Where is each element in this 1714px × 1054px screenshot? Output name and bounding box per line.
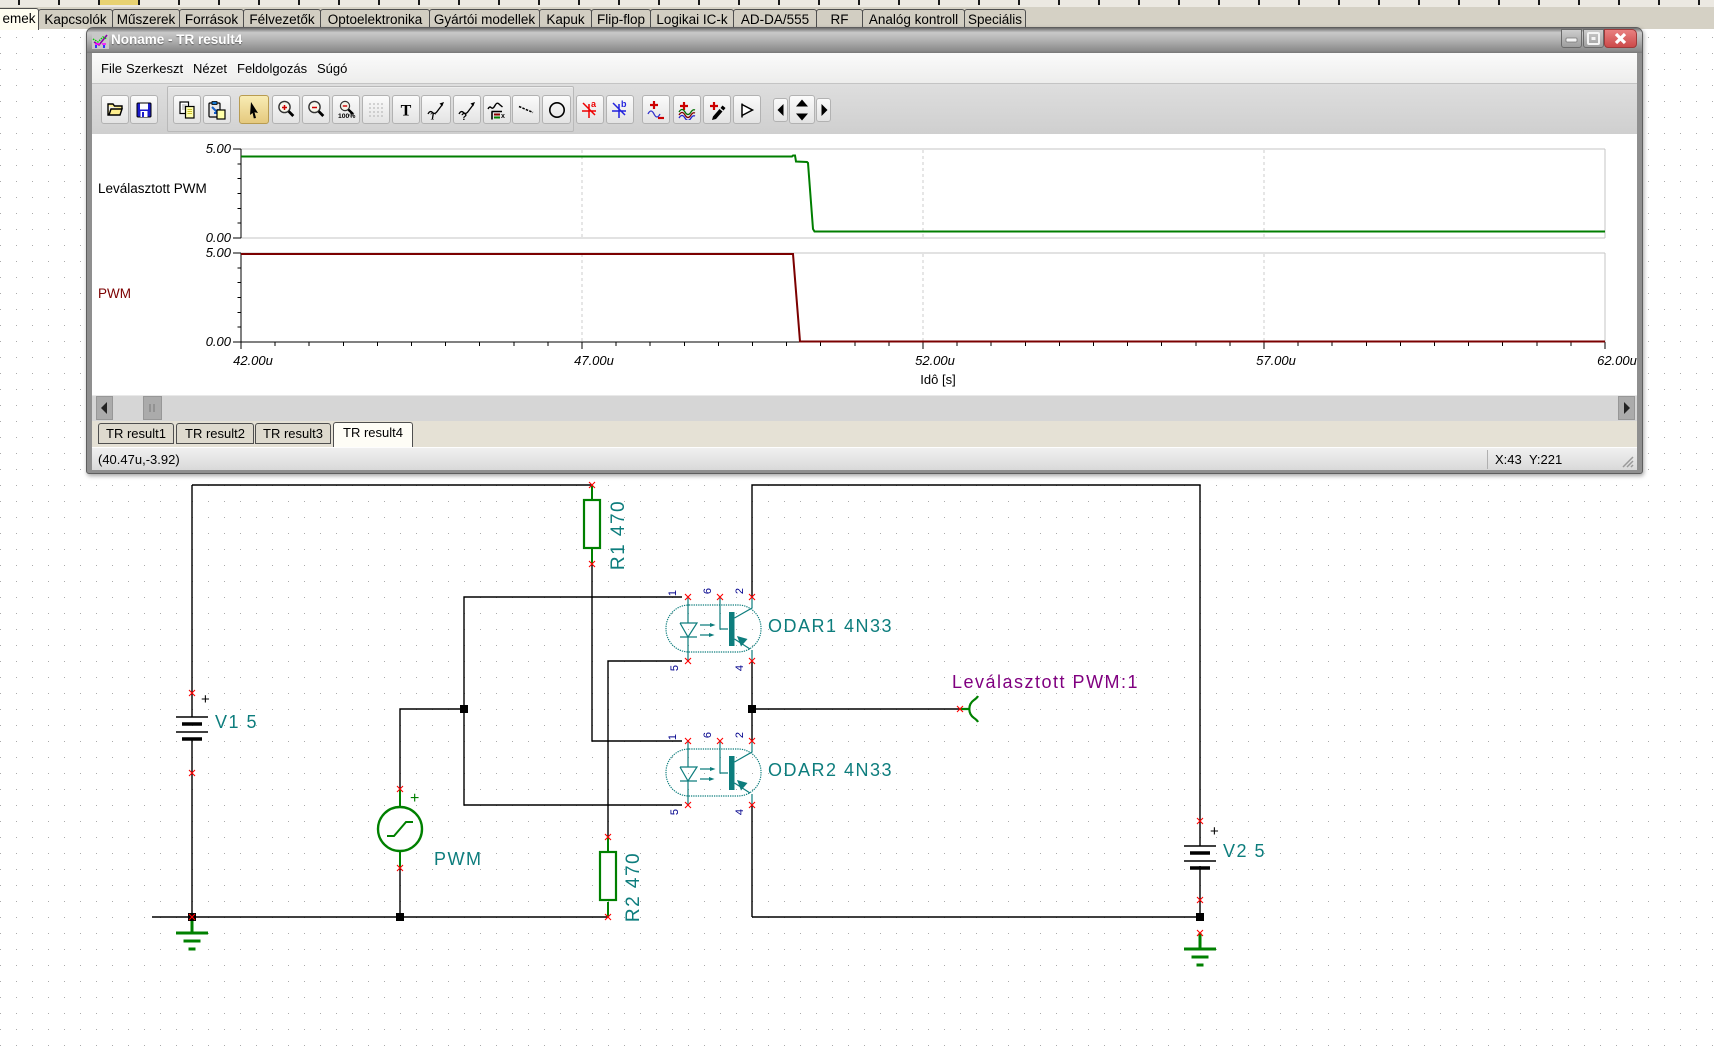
svg-text:+: +	[410, 790, 419, 807]
wire right box bottom rail	[752, 916, 1200, 918]
wire right box top	[752, 485, 1200, 917]
wire junction to PWM source	[400, 709, 464, 917]
battery V2	[1184, 846, 1216, 861]
svg-text:ODAR1 4N33: ODAR1 4N33	[768, 616, 893, 636]
wire left ground rail	[152, 916, 608, 918]
svg-text:6: 6	[702, 588, 714, 594]
svg-text:R1 470: R1 470	[608, 500, 629, 570]
svg-text:42.00u: 42.00u	[233, 353, 273, 368]
battery V1	[176, 717, 208, 732]
svg-text:100%: 100%	[338, 113, 355, 120]
svg-text:T: T	[430, 111, 436, 120]
svg-text:57.00u: 57.00u	[1256, 353, 1296, 368]
svg-text:Idô [s]: Idô [s]	[920, 372, 955, 387]
node PWM ground junction	[396, 913, 404, 921]
svg-text:b: b	[621, 99, 627, 109]
svg-text:V1 5: V1 5	[215, 712, 258, 732]
svg-text:ODAR2 4N33: ODAR2 4N33	[768, 760, 893, 780]
svg-text:52.00u: 52.00u	[915, 353, 955, 368]
svg-text:4: 4	[734, 665, 746, 671]
wire top rail V1 to R1	[192, 484, 592, 486]
svg-text:47.00u: 47.00u	[574, 353, 614, 368]
node V1 ground junction	[188, 913, 196, 921]
wire ODAR2 pin4 down	[751, 805, 753, 917]
svg-text:?: ?	[461, 112, 467, 120]
wire ODAR1 pin4 to junction to ODAR2 pin2	[751, 661, 753, 741]
svg-text:T: T	[401, 102, 412, 119]
resistor R2	[607, 837, 609, 917]
optocoupler ODAR2	[666, 749, 761, 796]
resistor R1	[591, 485, 593, 564]
svg-text:5: 5	[669, 809, 681, 815]
svg-text:5: 5	[669, 665, 681, 671]
svg-text:Leválasztott PWM:1: Leválasztott PWM:1	[952, 672, 1139, 692]
wire output to probe	[752, 708, 960, 710]
svg-text:PWM: PWM	[98, 286, 131, 301]
svg-text:a: a	[591, 99, 597, 109]
svg-text:62.00u: 62.00u	[1597, 353, 1637, 368]
optocoupler ODAR1	[666, 605, 761, 652]
svg-text:R2 470: R2 470	[623, 852, 644, 922]
svg-text:2: 2	[734, 732, 746, 738]
node PWM junction	[460, 705, 468, 713]
svg-text:4: 4	[734, 809, 746, 815]
ground for V1	[176, 917, 208, 949]
svg-text:2: 2	[734, 588, 746, 594]
svg-text:+: +	[1210, 823, 1219, 840]
svg-text:Leválasztott PWM: Leválasztott PWM	[98, 181, 207, 196]
wire R1 to ODAR2 pin1	[592, 485, 682, 741]
svg-text:0.00: 0.00	[206, 230, 232, 245]
wire PWM node vertical	[464, 597, 682, 805]
svg-text:5.00: 5.00	[206, 245, 232, 260]
node output junction	[748, 705, 756, 713]
svg-text:0.00: 0.00	[206, 334, 232, 349]
svg-text:+: +	[201, 691, 210, 708]
PWM source	[399, 789, 401, 868]
svg-text:1: 1	[667, 734, 679, 740]
node V2 ground junction	[1196, 913, 1204, 921]
svg-text:1: 1	[667, 590, 679, 596]
wire ODAR1 pin5 to R2	[608, 661, 682, 917]
svg-text:6: 6	[702, 732, 714, 738]
wire V1 vertical	[191, 485, 193, 917]
terminal marks	[589, 482, 595, 488]
ground for V2	[1184, 933, 1216, 965]
output probe Levalasztott PWM:1	[960, 696, 978, 722]
svg-text:V2 5: V2 5	[1223, 841, 1266, 861]
svg-text:5.00: 5.00	[206, 141, 232, 156]
svg-text:x: x	[501, 113, 505, 120]
svg-text:PWM: PWM	[434, 849, 483, 869]
